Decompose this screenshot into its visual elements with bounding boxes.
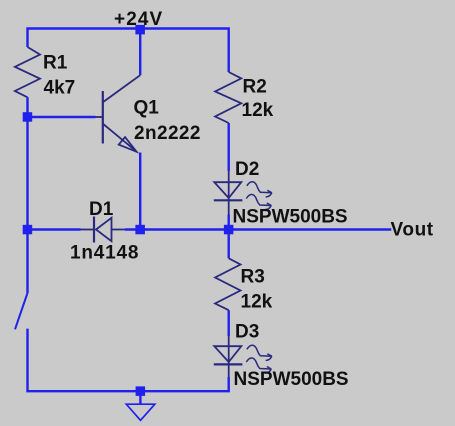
svg-text:R3: R3 (241, 267, 265, 288)
svg-text:12k: 12k (242, 100, 274, 121)
svg-text:+24V: +24V (114, 9, 163, 30)
svg-text:NSPW500BS: NSPW500BS (233, 207, 348, 228)
svg-text:D2: D2 (235, 159, 259, 180)
svg-text:NSPW500BS: NSPW500BS (234, 369, 349, 390)
svg-text:Q1: Q1 (134, 98, 160, 119)
svg-text:R1: R1 (43, 53, 68, 74)
svg-text:D3: D3 (235, 322, 259, 343)
svg-text:D1: D1 (89, 199, 114, 220)
svg-text:R2: R2 (243, 77, 267, 98)
svg-text:1n4148: 1n4148 (70, 243, 139, 264)
svg-text:2n2222: 2n2222 (134, 123, 201, 144)
svg-text:4k7: 4k7 (44, 78, 76, 99)
svg-text:12k: 12k (241, 292, 273, 313)
svg-text:Vout: Vout (391, 220, 434, 241)
